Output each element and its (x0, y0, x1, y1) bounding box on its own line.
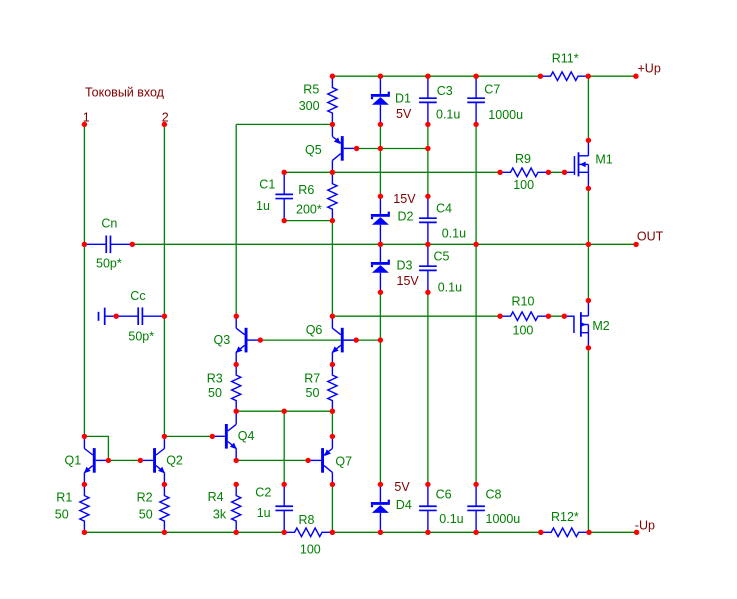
label C8 (486, 488, 502, 502)
node D1 top (378, 74, 383, 79)
transistor Q3 (236, 316, 260, 364)
node -Up terminal (634, 530, 639, 535)
node input-1 (82, 122, 87, 127)
label R8 value (300, 542, 321, 556)
label Q3 (214, 333, 231, 347)
node C6 top (425, 482, 430, 487)
svg-text:Q2: Q2 (166, 453, 183, 467)
label R10 value (513, 324, 534, 338)
wire M1 drain (587, 76, 589, 140)
label C7 value (488, 108, 523, 122)
wire Q6 node to R10 (332, 315, 500, 317)
node Cc right (162, 314, 167, 319)
node Q6 emitter (330, 362, 335, 367)
node Q6 collector (330, 314, 335, 319)
svg-text:1u: 1u (256, 199, 270, 213)
svg-text:100: 100 (513, 178, 534, 192)
resistor R8 (284, 528, 332, 537)
resistor R7 (328, 365, 337, 412)
label C1 (259, 177, 275, 191)
svg-text:15V: 15V (393, 192, 416, 206)
node D4 top (378, 482, 383, 487)
node Q2 collector (162, 434, 167, 439)
label R4 value (213, 507, 227, 521)
wire D column lower (379, 292, 381, 484)
node R4 bottom (234, 530, 239, 535)
node M2 gate (562, 314, 567, 319)
svg-text:R7: R7 (304, 372, 320, 386)
label D3 voltage (397, 274, 420, 288)
svg-text:R8: R8 (299, 513, 315, 527)
label pin 2 (162, 110, 169, 124)
node R8 right (330, 530, 335, 535)
svg-text:C1: C1 (259, 177, 275, 191)
label R2 (137, 490, 153, 504)
svg-text:50: 50 (306, 386, 320, 400)
label C5 value (438, 281, 462, 295)
node C column base row (425, 146, 430, 151)
node Q2 emitter (162, 482, 167, 487)
transistor Q7 (308, 436, 332, 484)
svg-text:R4: R4 (208, 490, 224, 504)
label Q4 (238, 429, 255, 443)
node C3 top (425, 74, 430, 79)
svg-text:Cc: Cc (130, 289, 145, 303)
capacitor C3 (419, 76, 437, 124)
svg-text:1u: 1u (257, 506, 271, 520)
node Q4 emitter (234, 458, 239, 463)
label D3 (397, 258, 413, 272)
node OUT terminal (633, 242, 638, 247)
label C2 value (257, 506, 271, 520)
node Cn left (82, 242, 87, 247)
label C2 (255, 485, 271, 499)
transistor M1 (565, 140, 589, 188)
label R3 (207, 372, 223, 386)
label Cn value (96, 256, 122, 270)
label C8 value (486, 512, 521, 526)
node Q7 base (305, 458, 310, 463)
node +Up terminal (633, 74, 638, 79)
wire Q7 collector to rail (331, 484, 333, 532)
svg-text:C4: C4 (436, 202, 452, 216)
node M2 drain (586, 298, 591, 303)
svg-text:Q3: Q3 (214, 333, 231, 347)
diode D4 (371, 484, 390, 532)
label C4 value (442, 226, 466, 240)
label Q5 (305, 143, 322, 157)
label Cn (101, 217, 117, 231)
label R2 value (139, 508, 153, 522)
node C8 top (473, 482, 478, 487)
svg-text:Q7: Q7 (335, 454, 352, 468)
transistor Q6 (332, 316, 356, 364)
svg-text:D1: D1 (395, 92, 411, 106)
node Q3 base (258, 337, 263, 342)
wire R6 bottom to Q6 node (331, 221, 333, 317)
wire +Up rail right (588, 75, 636, 77)
svg-text:R3: R3 (207, 372, 223, 386)
svg-text:15V: 15V (397, 274, 420, 288)
wire input-1 vertical (83, 124, 85, 436)
node R9 left (497, 170, 502, 175)
svg-text:C6: C6 (436, 488, 452, 502)
node Q5 emitter (330, 122, 335, 127)
node R3-R7 row middle (282, 409, 287, 414)
node R11 left (538, 74, 543, 79)
node C6 bottom (425, 530, 430, 535)
label C7 (484, 82, 500, 96)
node R2 bottom (162, 530, 167, 535)
svg-text:R9: R9 (515, 152, 531, 166)
label Q7 (335, 454, 352, 468)
node R12 right (586, 530, 591, 535)
node C7 bottom (473, 122, 478, 127)
node R10 left (497, 314, 502, 319)
svg-text:R2: R2 (137, 490, 153, 504)
label R3 value (208, 386, 222, 400)
svg-text:R12*: R12* (551, 510, 579, 524)
transistor Q2 (140, 436, 164, 484)
svg-text:0.1u: 0.1u (438, 281, 462, 295)
wire Q5-collector to Q3 vertical (235, 124, 237, 316)
svg-text:50p*: 50p* (128, 330, 154, 344)
svg-text:C2: C2 (255, 485, 271, 499)
diode D2 (371, 196, 390, 244)
label title (85, 85, 165, 99)
node input-2 (162, 122, 167, 127)
svg-text:C5: C5 (434, 250, 450, 264)
input probe tick (99, 308, 117, 325)
node C1 top (282, 170, 287, 175)
diode D3 (371, 244, 390, 292)
svg-text:R10: R10 (512, 294, 535, 308)
node R1 bottom (82, 530, 87, 535)
wire Q1 collector-base jog (84, 436, 108, 460)
label D2 (398, 210, 414, 224)
label R7 (304, 372, 320, 386)
label R5 (303, 83, 319, 97)
node C1 bottom (282, 218, 287, 223)
svg-text:Q1: Q1 (65, 453, 82, 467)
wire D column upper (379, 124, 381, 196)
label Cc (130, 289, 145, 303)
svg-text:3k: 3k (213, 507, 227, 521)
svg-text:50: 50 (55, 508, 69, 522)
label D4 (396, 498, 412, 512)
label R7 value (306, 386, 320, 400)
node R4 top (234, 482, 239, 487)
node Q3 emitter (234, 362, 239, 367)
wire C7-C8 column (475, 124, 477, 484)
svg-text:0.1u: 0.1u (439, 512, 463, 526)
label R11 (552, 52, 579, 66)
capacitor C5 (419, 244, 437, 292)
wire bias row C1 to R9 (284, 171, 500, 173)
capacitor C1 (275, 172, 293, 220)
label -Up (635, 518, 655, 532)
wire R9 to M1 gate (548, 171, 564, 173)
node D4 bottom (378, 530, 383, 535)
node D column Q6 base (378, 337, 383, 342)
svg-text:R6: R6 (298, 183, 314, 197)
label pin 1 (83, 110, 90, 124)
node C4 bottom (425, 242, 430, 247)
wire R3-R7 bottom row (236, 410, 332, 412)
svg-text:50: 50 (208, 386, 222, 400)
node C8 bottom (473, 530, 478, 535)
svg-text:200*: 200* (296, 203, 322, 217)
resistor R5 (328, 76, 337, 124)
svg-text:M2: M2 (592, 319, 609, 333)
wire M2 source to -Up rail (587, 348, 589, 533)
node Cc left (114, 314, 119, 319)
node C5 bottom (425, 290, 430, 295)
label Q1 (65, 453, 82, 467)
node Q1 collector (82, 434, 87, 439)
resistor R1 (80, 484, 89, 532)
wire bottom rail right (589, 531, 637, 533)
svg-text:Cn: Cn (101, 217, 117, 231)
wire Q2 collector to Q4 base (164, 435, 212, 437)
label R6 (298, 183, 314, 197)
resistor R12 (541, 528, 589, 537)
resistor R6 (328, 172, 337, 220)
capacitor Cn (84, 236, 132, 254)
svg-text:Q4: Q4 (238, 429, 255, 443)
node Q5 base (354, 146, 359, 151)
node R10 right (546, 314, 551, 319)
resistor R10 (500, 312, 548, 321)
svg-text:1000u: 1000u (488, 108, 523, 122)
label C3 (437, 84, 453, 98)
resistor R2 (160, 484, 169, 532)
svg-text:+Up: +Up (638, 62, 661, 76)
node Q1 base (106, 458, 111, 463)
svg-text:50: 50 (139, 508, 153, 522)
label D4 voltage (394, 480, 410, 494)
resistor R4 (232, 484, 241, 532)
wire R10 to M2 gate (548, 315, 564, 317)
svg-text:5V: 5V (396, 107, 412, 121)
capacitor C4 (419, 196, 437, 244)
label OUT (637, 229, 664, 243)
node C7 top (473, 74, 478, 79)
node R7 bottom (330, 409, 335, 414)
svg-text:R1: R1 (56, 490, 72, 504)
label Q6 (306, 323, 323, 337)
wire Q5-collector to Q3 horizontal (236, 123, 332, 125)
node C2 bottom (282, 530, 287, 535)
node C4 top (425, 194, 430, 199)
label R9 value (513, 178, 534, 192)
svg-text:R11*: R11* (552, 52, 579, 66)
svg-text:C7: C7 (484, 82, 500, 96)
svg-text:R5: R5 (303, 83, 319, 97)
svg-text:OUT: OUT (637, 229, 664, 243)
svg-text:1: 1 (83, 110, 90, 124)
node D2 bottom (378, 242, 383, 247)
capacitor C7 (467, 76, 485, 124)
capacitor C6 (419, 484, 437, 532)
node M1 drain (586, 138, 591, 143)
transistor Q4 (212, 412, 236, 460)
label R12 (551, 510, 579, 524)
wire Q5 base row (357, 148, 428, 150)
label R6 value (296, 203, 322, 217)
label D2 voltage (393, 192, 416, 206)
svg-text:0.1u: 0.1u (436, 108, 460, 122)
label Q2 (166, 453, 183, 467)
capacitor Cc (116, 307, 164, 325)
node R9 right (546, 170, 551, 175)
svg-text:Токовый вход: Токовый вход (85, 85, 165, 99)
label R9 (515, 152, 531, 166)
wire input-2 vertical (163, 124, 165, 436)
wire M1 source to OUT (587, 188, 589, 244)
label M2 (592, 319, 609, 333)
wire bottom rail left (84, 531, 284, 533)
label R8 (299, 513, 315, 527)
svg-text:100: 100 (513, 324, 534, 338)
node D2 top (378, 194, 383, 199)
svg-text:Q5: Q5 (305, 143, 322, 157)
node C7 column OUT (473, 242, 478, 247)
wire C column lower (427, 292, 429, 484)
node Q1 emitter (82, 482, 87, 487)
label D1 voltage (396, 107, 412, 121)
capacitor C2 (275, 484, 293, 532)
wire Q4 emitter to Q7 base (236, 459, 308, 461)
capacitor C8 (467, 484, 485, 532)
node M1 gate (562, 170, 567, 175)
label C4 (436, 202, 452, 216)
svg-text:1000u: 1000u (486, 512, 521, 526)
svg-text:0.1u: 0.1u (442, 226, 466, 240)
node Q2 base (138, 458, 143, 463)
label R1 (56, 490, 72, 504)
wire C1-R6 bottom row (284, 220, 332, 222)
svg-text:C3: C3 (437, 84, 453, 98)
svg-text:300: 300 (299, 99, 320, 113)
node Q7 emitter (330, 434, 335, 439)
node D3 bottom (378, 290, 383, 295)
svg-text:M1: M1 (595, 153, 612, 167)
diode D1 (371, 76, 390, 124)
wire Q1-Q2 base row (108, 459, 140, 461)
label C3 value (436, 108, 460, 122)
transistor M2 (564, 301, 588, 348)
node Q7 collector (330, 482, 335, 487)
node D1 bottom (378, 122, 383, 127)
node M1 source (586, 186, 591, 191)
label R5 value (299, 99, 320, 113)
label M1 (595, 153, 612, 167)
svg-text:-Up: -Up (635, 518, 655, 532)
node R6 bottom (330, 218, 335, 223)
wire OUT rail (132, 243, 636, 245)
wire C2 column (283, 411, 285, 484)
transistor Q1 (84, 436, 108, 484)
node R3 bottom (234, 409, 239, 414)
label R4 (208, 490, 224, 504)
svg-text:50p*: 50p* (96, 256, 122, 270)
node Q4 base (210, 434, 215, 439)
svg-text:D3: D3 (397, 258, 413, 272)
svg-text:Q6: Q6 (306, 323, 323, 337)
node Q3 collector (234, 314, 239, 319)
wire bottom rail middle (332, 531, 540, 533)
label C6 (436, 488, 452, 502)
label C5 (434, 250, 450, 264)
node R12 left (538, 530, 543, 535)
node C3 bottom (425, 122, 430, 127)
transistor Q5 (332, 124, 356, 172)
svg-text:5V: 5V (394, 480, 410, 494)
label R10 (512, 294, 535, 308)
svg-text:D4: D4 (396, 498, 412, 512)
wire OUT to M2 drain (587, 244, 589, 300)
node Q5 collector (330, 170, 335, 175)
wire C column upper (427, 124, 429, 196)
label D1 (395, 92, 411, 106)
node Q6 base (354, 337, 359, 342)
svg-text:100: 100 (300, 542, 321, 556)
label C6 value (439, 512, 463, 526)
svg-text:D2: D2 (398, 210, 414, 224)
node M2 source (586, 345, 591, 350)
node D column base row (378, 146, 383, 151)
label +Up (638, 62, 661, 76)
label Cc value (128, 330, 154, 344)
node Cn right (130, 242, 135, 247)
svg-text:2: 2 (162, 110, 169, 124)
resistor R9 (500, 168, 548, 177)
label C1 value (256, 199, 270, 213)
node M1 source OUT junction (586, 242, 591, 247)
node R5 top (330, 74, 335, 79)
wire R7 to Q7 emitter (331, 411, 333, 436)
resistor R3 (232, 365, 241, 412)
node R11 right (586, 74, 591, 79)
wire Q3-Q6 base row (260, 339, 380, 341)
label R1 value (55, 508, 69, 522)
resistor R11 (540, 72, 588, 81)
svg-text:C8: C8 (486, 488, 502, 502)
node C2 top (282, 482, 287, 487)
wire +Up rail left (332, 75, 540, 77)
